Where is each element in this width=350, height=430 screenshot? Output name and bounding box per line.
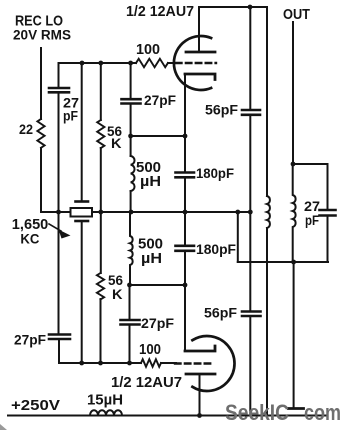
svg-text:K: K	[112, 286, 123, 302]
svg-text:56pF: 56pF	[204, 305, 237, 321]
svg-text:27pF: 27pF	[144, 92, 176, 108]
node bus dots	[56, 210, 61, 215]
wire top grid line	[59, 62, 137, 64]
wire rail A upper segment	[58, 63, 60, 88]
watermark SeekIC.com	[225, 400, 341, 425]
wire cathode rail mid	[184, 177, 186, 246]
inductor L 500uH upper	[131, 156, 135, 191]
node top grid dots	[80, 61, 85, 66]
wire rail 56K lower	[100, 299, 102, 363]
wire main bus right	[92, 211, 250, 213]
resistor 56K upper	[97, 120, 104, 148]
crystal Y1 1650KC	[76, 200, 89, 203]
node plate supply dot	[197, 413, 202, 418]
wire resistor to grid lower	[161, 362, 176, 364]
wire input lead to bus	[40, 148, 42, 212]
resistor 22	[37, 119, 44, 148]
svg-text:SeekIC: SeekIC	[225, 400, 289, 425]
op tube V1 1/2 12AU7 envelope	[174, 36, 211, 90]
svg-text:27pF: 27pF	[14, 332, 46, 348]
wire rail A lower segment	[58, 212, 60, 335]
wire 27pF right top lead	[327, 164, 329, 210]
svg-text:KC: KC	[20, 230, 39, 246]
svg-text:OUT: OUT	[283, 7, 310, 23]
node +250V label	[11, 397, 60, 414]
inductor L 500uH lower	[130, 212, 133, 285]
wire OUT lead	[292, 22, 294, 164]
capacitor C 27pF top-middle	[122, 99, 141, 103]
svg-text:com: com	[304, 400, 341, 425]
svg-text:100: 100	[139, 341, 161, 358]
svg-text:µH: µH	[140, 173, 161, 190]
inductor L 15uH choke	[90, 410, 122, 415]
svg-text:22: 22	[19, 121, 33, 137]
node OUT label	[283, 7, 310, 23]
tube V1 plate	[186, 51, 215, 54]
node terminal bar	[289, 407, 304, 410]
svg-text:180pF: 180pF	[196, 165, 234, 181]
wire cathode rail lower	[184, 251, 186, 351]
wire cathode rail upper	[184, 74, 186, 173]
svg-text:27pF: 27pF	[141, 315, 174, 331]
wire link 164	[293, 163, 328, 165]
capacitor C 27pF bottom-middle	[121, 320, 140, 325]
label 1650 KC with arrow	[12, 217, 49, 246]
svg-text:15µH: 15µH	[87, 393, 123, 409]
tube V1 plate lead	[198, 7, 200, 52]
capacitor C 27pF right	[320, 210, 336, 216]
wire link 136	[131, 135, 185, 137]
node REC LO input label	[13, 13, 71, 43]
wire rail 56K mid	[100, 148, 102, 273]
svg-text:1/2 12AU7: 1/2 12AU7	[111, 374, 182, 391]
wire input lead	[40, 48, 42, 119]
wire rail mid lower	[129, 285, 131, 320]
wire bottom grid bus	[59, 362, 141, 364]
wire rail A mid segment	[58, 92, 60, 212]
wire rail 56K upper	[100, 63, 102, 120]
crystal Y1 bottom lead	[81, 221, 83, 363]
svg-text:180pF: 180pF	[196, 241, 236, 257]
node link285 dots	[127, 283, 132, 288]
wire rail mid upper	[130, 63, 132, 99]
tube V2 grid	[175, 362, 214, 364]
tube V2 cathode	[185, 346, 215, 351]
tube V1 cathode	[185, 74, 215, 80]
wire +250V rail	[8, 415, 326, 417]
capacitor C 27pF top-left	[49, 88, 69, 92]
resistor 56K lower	[97, 273, 104, 299]
inductor T1 primary	[267, 196, 270, 228]
capacitor C 56pF lower	[242, 312, 261, 317]
svg-text:µH: µH	[141, 250, 162, 267]
wire main bus left	[41, 211, 71, 213]
capacitor C 56pF upper	[242, 110, 260, 115]
wire top plate bus	[199, 6, 267, 8]
svg-text:+250V: +250V	[11, 397, 60, 414]
tube V2 plate	[186, 373, 215, 376]
node plate bus dot	[248, 5, 253, 10]
wire bus to link 262	[237, 212, 239, 262]
wire 27pF right bottom lead	[327, 216, 329, 263]
capacitor C 180pF upper	[176, 173, 195, 178]
svg-text:pF: pF	[305, 212, 319, 228]
wire rail mid segment	[130, 104, 132, 157]
wire rail 56pF top	[249, 7, 251, 110]
wire rail 56pF bottom	[249, 316, 251, 416]
tube V2 plate lead	[199, 374, 201, 416]
wire secondary to bottom	[293, 262, 295, 407]
wire rail primary bottom	[266, 228, 268, 416]
node link136 dots	[128, 134, 133, 139]
wire rail A to bottom bus	[58, 339, 60, 363]
svg-text:1/2 12AU7: 1/2 12AU7	[126, 3, 194, 20]
svg-text:100: 100	[136, 41, 160, 58]
capacitor C 180pF lower	[176, 246, 195, 251]
op tube V2 1/2 12AU7 envelope	[192, 336, 234, 391]
node link262 dot	[291, 260, 296, 265]
wire link 285	[130, 284, 186, 286]
wire rail primary top	[266, 7, 268, 196]
tube V1 grid	[176, 62, 216, 64]
svg-text:K: K	[111, 135, 122, 151]
crystal Y1 top lead	[81, 63, 83, 202]
svg-text:56pF: 56pF	[205, 102, 238, 118]
svg-text:pF: pF	[63, 108, 78, 124]
wire rail 56pF mid	[249, 115, 251, 312]
resistor 100 lower	[141, 359, 161, 367]
capacitor C 27pF bottom-left	[49, 335, 70, 340]
wire rail mid to bus	[130, 191, 132, 212]
wire resistor to grid	[168, 62, 176, 64]
node bottom bus dots	[79, 361, 84, 366]
svg-text:20V RMS: 20V RMS	[13, 28, 71, 43]
inductor T1 secondary	[293, 164, 296, 262]
node out link dot	[291, 162, 296, 167]
scan artifact bottom-left corner	[0, 424, 7, 430]
resistor 100 upper	[136, 59, 168, 67]
wire link 262	[238, 261, 328, 263]
wire rail mid to bottom bus	[129, 325, 131, 364]
